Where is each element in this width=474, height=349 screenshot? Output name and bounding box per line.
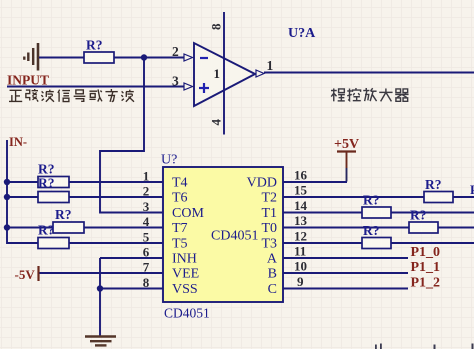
op-amp U1A (194, 12, 255, 135)
wire INH to ground (99, 258, 101, 336)
svg-text:4: 4 (209, 119, 224, 126)
svg-text:T5: T5 (172, 237, 188, 252)
wire pin13 row (283, 227, 474, 229)
svg-text:-5V: -5V (15, 267, 36, 282)
svg-text:T4: T4 (172, 176, 188, 191)
wire R3 to pin4 (84, 227, 163, 229)
svg-text:3: 3 (172, 74, 179, 89)
ground GND2 (bottom) (85, 337, 116, 346)
pin numbers left (143, 169, 150, 291)
resistor R2 (38, 192, 69, 203)
svg-text:T2: T2 (261, 191, 277, 206)
svg-text:R?: R? (425, 177, 442, 192)
svg-text:6: 6 (143, 245, 150, 260)
node dot pin1 row (4, 179, 10, 185)
resistor R10 (362, 238, 391, 249)
svg-text:13: 13 (294, 213, 308, 228)
svg-text:P1_0: P1_0 (411, 245, 441, 260)
resistor R1 (38, 177, 69, 188)
svg-text:INPUT: INPUT (7, 73, 49, 88)
svg-text:10: 10 (294, 259, 307, 274)
svg-text:CD4051: CD4051 (164, 306, 210, 321)
pin 2 arrow (184, 54, 193, 61)
IC U2 CD4051 body (163, 167, 283, 302)
wire INPUT to op-amp pin3 (7, 86, 185, 88)
pin 3 arrow (184, 83, 193, 90)
svg-text:5: 5 (143, 230, 150, 245)
svg-text:9: 9 (297, 274, 304, 289)
wire op-amp output to right edge (264, 72, 474, 74)
svg-text:R?: R? (410, 208, 427, 223)
svg-text:R?: R? (363, 223, 380, 238)
svg-text:R?: R? (86, 38, 103, 53)
node dot pin2 row (4, 194, 10, 200)
svg-text:T1: T1 (261, 206, 277, 221)
wire pin15 row (283, 196, 474, 198)
watermark fragments bottom edge (375, 344, 474, 349)
svg-text:1: 1 (267, 58, 274, 73)
svg-text:T0: T0 (261, 221, 277, 236)
svg-text:4: 4 (143, 214, 150, 229)
svg-text:CD4051: CD4051 (211, 229, 258, 244)
svg-text:R?: R? (38, 223, 55, 238)
resistor R7 (424, 192, 453, 203)
svg-text:8: 8 (209, 23, 224, 30)
node junction A (141, 54, 147, 60)
wire pin11 row (283, 257, 408, 259)
resistor R8 (362, 207, 391, 218)
svg-text:2: 2 (143, 184, 150, 199)
svg-text:7: 7 (143, 260, 150, 275)
svg-text:R?: R? (55, 207, 72, 222)
svg-text:VDD: VDD (247, 176, 277, 191)
pin 1 output arrow (256, 70, 264, 77)
CJK annotation line 1 (drawn strokes) : 正弦波信号或方波 (9, 89, 134, 102)
svg-text:8: 8 (143, 275, 150, 290)
node dot VSS row (97, 285, 103, 291)
svg-text:R?: R? (38, 162, 55, 177)
svg-text:14: 14 (294, 198, 308, 213)
wire pin10 row (283, 272, 408, 274)
pin labels left (172, 176, 204, 298)
node dot pin4 row (4, 224, 10, 230)
pin numbers right (294, 168, 308, 290)
svg-text:INH: INH (172, 252, 197, 267)
resistor R9 (409, 222, 438, 233)
svg-text:T7: T7 (172, 221, 188, 236)
svg-text:2: 2 (172, 44, 179, 59)
wire to R3 (7, 227, 53, 229)
resistor R6 (84, 52, 114, 63)
resistor R3 (53, 222, 84, 233)
wire R2 to pin2 (69, 196, 163, 198)
wire ground to R6 (39, 57, 84, 59)
svg-text:P1_1: P1_1 (411, 260, 441, 275)
wire IN- vertical bus (7, 140, 38, 243)
svg-text:3: 3 (143, 199, 150, 214)
svg-text:IN-: IN- (9, 135, 27, 149)
svg-text:VSS: VSS (172, 282, 198, 297)
svg-text:COM: COM (172, 206, 204, 221)
svg-text:T6: T6 (172, 191, 188, 206)
wire R1 to pin1 (69, 181, 163, 183)
svg-text:12: 12 (294, 229, 307, 244)
wire R4 to pin5 (69, 242, 163, 244)
svg-text:U?: U? (161, 153, 177, 168)
pin labels right (247, 176, 278, 298)
wire -5V to pin7 (40, 272, 164, 274)
wire INH pin6 (100, 257, 163, 259)
svg-text:16: 16 (294, 168, 308, 183)
svg-text:U?A: U?A (288, 26, 316, 41)
svg-text:+5V: +5V (334, 137, 359, 152)
wire to R1 (7, 181, 38, 183)
wire pin14 row (283, 212, 474, 214)
svg-text:VEE: VEE (172, 267, 199, 282)
wire to R2 (7, 196, 38, 198)
wire R6 to op-amp pin2 (114, 57, 185, 59)
svg-text:A: A (267, 252, 278, 267)
wire VSS pin8 (100, 288, 163, 290)
wire pin9 row (283, 288, 408, 290)
svg-text:B: B (268, 267, 277, 282)
wire junction A to COM pin3 of U2 (100, 58, 163, 213)
svg-text:11: 11 (294, 244, 306, 259)
svg-text:P1_2: P1_2 (411, 276, 441, 291)
svg-text:T3: T3 (261, 237, 277, 252)
CJK annotation line 2 : 程控放大器 (331, 88, 409, 101)
svg-text:15: 15 (294, 183, 308, 198)
svg-text:R?: R? (38, 176, 55, 191)
ground GND1 (input, sideways) (24, 43, 38, 71)
resistor R4 (38, 238, 69, 249)
svg-text:R: R (470, 182, 474, 197)
svg-text:C: C (268, 282, 277, 297)
wire pin12 row (283, 242, 474, 244)
wire pin16 to +5V (283, 181, 347, 183)
svg-text:1: 1 (143, 169, 150, 184)
svg-text:R?: R? (363, 193, 380, 208)
svg-text:1: 1 (214, 66, 221, 81)
